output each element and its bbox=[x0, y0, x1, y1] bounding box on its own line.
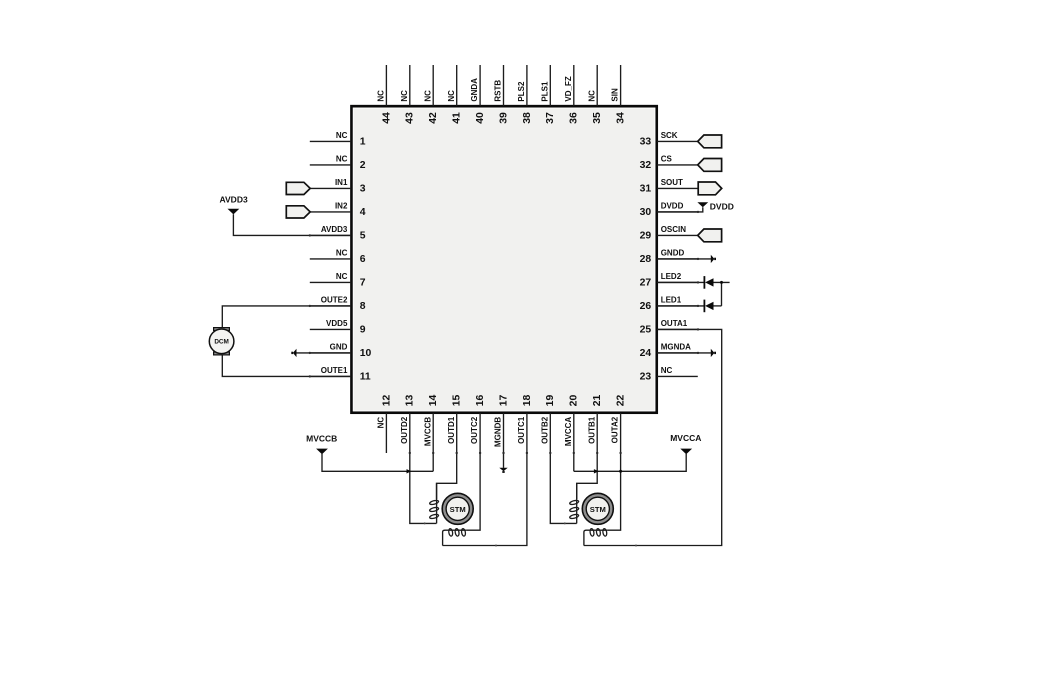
svg-text:20: 20 bbox=[569, 395, 580, 407]
connector OSCIN tag bbox=[698, 229, 722, 242]
svg-text:PLS1: PLS1 bbox=[540, 81, 549, 102]
pin 22 OUTA2 bottom wire bbox=[611, 395, 627, 453]
svg-text:OUTD1: OUTD1 bbox=[447, 416, 456, 444]
junction LED node bbox=[720, 281, 723, 284]
stepper motor STM A motor 2 bbox=[582, 493, 613, 524]
svg-text:5: 5 bbox=[360, 231, 366, 242]
pin 11 OUTE1 left wire bbox=[310, 366, 371, 383]
svg-text:NC: NC bbox=[336, 131, 348, 140]
svg-text:6: 6 bbox=[360, 254, 366, 265]
pin 42 NC top wire bbox=[423, 65, 439, 124]
pin 26 LED1 right wire bbox=[640, 296, 698, 313]
svg-text:DCM: DCM bbox=[214, 339, 229, 346]
pin 41 NC top wire bbox=[447, 65, 463, 124]
pin 14 MVCCB bottom wire bbox=[423, 395, 439, 453]
pin 35 NC top wire bbox=[587, 65, 603, 124]
pin 34 SIN top wire bbox=[611, 65, 627, 124]
svg-text:OUTE2: OUTE2 bbox=[321, 296, 348, 305]
inductor coil vertical STM A motor 2 bbox=[569, 483, 579, 523]
svg-text:CS: CS bbox=[661, 155, 673, 164]
svg-text:24: 24 bbox=[640, 348, 652, 359]
pin 16 OUTC2 bottom wire bbox=[470, 395, 486, 453]
pin 17 MGNDB bottom wire bbox=[494, 395, 510, 453]
pin 28 GNDD right wire bbox=[640, 249, 698, 266]
svg-text:19: 19 bbox=[545, 395, 556, 407]
wire pin 19 OUTB2 route bbox=[550, 453, 576, 523]
svg-text:2: 2 bbox=[360, 160, 366, 171]
svg-text:IN1: IN1 bbox=[335, 178, 348, 187]
pin 9 VDD5 left wire bbox=[310, 319, 366, 336]
svg-text:STM: STM bbox=[450, 505, 466, 514]
svg-text:STM: STM bbox=[590, 505, 606, 514]
wire pin 20 MVCCA stub down bbox=[573, 453, 575, 471]
diode LED1 bbox=[658, 300, 722, 313]
svg-text:34: 34 bbox=[616, 112, 627, 124]
wire AVDD3 to pin 5 bbox=[233, 214, 350, 235]
junction arrow on MVCCB rail at pin 13 bbox=[407, 469, 412, 473]
power DVDD symbol bbox=[697, 202, 733, 212]
inductor coil bottom STM A motor 2 bbox=[584, 528, 608, 545]
wire DVDD pin 30 bbox=[658, 207, 703, 212]
svg-text:4: 4 bbox=[360, 207, 366, 218]
svg-text:NC: NC bbox=[336, 249, 348, 258]
pin 43 NC top wire bbox=[400, 65, 416, 124]
power MVCCB symbol and rail bbox=[306, 434, 433, 472]
svg-text:NC: NC bbox=[400, 90, 409, 102]
svg-text:40: 40 bbox=[475, 112, 486, 124]
svg-text:SCK: SCK bbox=[661, 131, 678, 140]
pin 24 MGNDA right wire bbox=[640, 343, 698, 360]
pin 36 VD_FZ top wire bbox=[564, 65, 580, 124]
connector IN1 tag bbox=[286, 182, 310, 194]
junction arrow on MVCCA rail at pin 21 bbox=[594, 469, 599, 473]
svg-text:7: 7 bbox=[360, 278, 366, 289]
svg-text:25: 25 bbox=[640, 325, 652, 336]
svg-text:AVDD3: AVDD3 bbox=[220, 194, 248, 204]
svg-text:DVDD: DVDD bbox=[661, 202, 684, 211]
svg-text:GNDD: GNDD bbox=[661, 249, 685, 258]
svg-text:27: 27 bbox=[640, 278, 652, 289]
wire LED2 to LED1 vertical bbox=[721, 282, 723, 306]
svg-text:AVDD3: AVDD3 bbox=[321, 225, 348, 234]
inductor coil bottom STM B motor 1 bbox=[443, 528, 467, 545]
wire pin 25 OUTA1 long route bbox=[584, 329, 722, 545]
svg-text:32: 32 bbox=[640, 160, 652, 171]
svg-text:36: 36 bbox=[569, 112, 580, 124]
svg-text:38: 38 bbox=[522, 112, 533, 124]
svg-text:22: 22 bbox=[616, 395, 627, 407]
wire pin 11 OUTE1 to DCM motor bbox=[222, 355, 350, 377]
svg-text:41: 41 bbox=[452, 112, 463, 124]
svg-text:DVDD: DVDD bbox=[710, 202, 734, 212]
pin 21 OUTB1 bottom wire bbox=[587, 395, 603, 453]
svg-text:11: 11 bbox=[360, 372, 371, 383]
power MVCCA symbol and rail bbox=[574, 433, 702, 471]
wire pin 8 OUTE2 to DCM motor bbox=[222, 306, 350, 328]
svg-text:SOUT: SOUT bbox=[661, 178, 683, 187]
svg-text:MGNDA: MGNDA bbox=[661, 343, 691, 352]
connector SOUT tag bbox=[698, 182, 722, 195]
svg-text:14: 14 bbox=[428, 395, 439, 407]
svg-text:SIN: SIN bbox=[611, 88, 620, 102]
IC U1 44-pin QFP body bbox=[352, 106, 657, 413]
svg-text:NC: NC bbox=[336, 155, 348, 164]
svg-text:OUTC1: OUTC1 bbox=[517, 416, 526, 444]
svg-text:MVCCB: MVCCB bbox=[423, 417, 432, 447]
svg-text:17: 17 bbox=[498, 395, 509, 407]
svg-text:30: 30 bbox=[640, 207, 652, 218]
svg-text:OUTA2: OUTA2 bbox=[611, 416, 620, 443]
svg-text:NC: NC bbox=[377, 90, 386, 102]
svg-text:OUTD2: OUTD2 bbox=[400, 416, 409, 444]
pin 38 PLS2 top wire bbox=[517, 65, 533, 124]
svg-text:VDD5: VDD5 bbox=[326, 319, 348, 328]
svg-text:21: 21 bbox=[592, 395, 603, 407]
wire pin 14 MVCCB stub down bbox=[432, 453, 434, 471]
svg-text:43: 43 bbox=[405, 112, 416, 124]
wire pin 13 OUTD2 route bbox=[410, 453, 437, 523]
junction dot on MVCCA rail at pin 22 bbox=[619, 470, 622, 473]
svg-text:42: 42 bbox=[428, 112, 439, 124]
pin 39 RSTB top wire bbox=[494, 65, 510, 124]
svg-text:GNDA: GNDA bbox=[470, 78, 479, 102]
svg-text:39: 39 bbox=[498, 112, 509, 124]
svg-text:9: 9 bbox=[360, 325, 366, 336]
svg-text:12: 12 bbox=[381, 395, 392, 407]
stepper motor STM B motor 1 bbox=[442, 493, 473, 524]
svg-text:16: 16 bbox=[475, 395, 486, 407]
svg-text:10: 10 bbox=[360, 348, 372, 359]
svg-text:IN2: IN2 bbox=[335, 202, 348, 211]
svg-text:37: 37 bbox=[545, 112, 556, 124]
svg-text:MVCCA: MVCCA bbox=[564, 417, 573, 447]
pin 40 GNDA top wire bbox=[470, 65, 486, 124]
pin 20 MVCCA bottom wire bbox=[564, 395, 580, 453]
svg-text:23: 23 bbox=[640, 372, 652, 383]
pin 15 OUTD1 bottom wire bbox=[447, 395, 463, 453]
svg-text:NC: NC bbox=[661, 366, 673, 375]
pin 25 OUTA1 right wire bbox=[640, 319, 698, 336]
svg-text:1: 1 bbox=[360, 137, 366, 148]
svg-text:RSTB: RSTB bbox=[494, 80, 503, 102]
wire pin 16 OUTC2 route bbox=[467, 453, 481, 530]
junction dots misc bbox=[495, 545, 497, 547]
svg-text:18: 18 bbox=[522, 395, 533, 407]
pin 31 SOUT right wire bbox=[640, 178, 698, 195]
svg-text:8: 8 bbox=[360, 301, 366, 312]
svg-text:MVCCB: MVCCB bbox=[306, 434, 337, 444]
pin 2 NC left wire bbox=[310, 155, 366, 172]
pin 13 OUTD2 bottom wire bbox=[400, 395, 416, 453]
svg-text:VD_FZ: VD_FZ bbox=[564, 76, 573, 101]
svg-text:28: 28 bbox=[640, 254, 652, 265]
svg-text:35: 35 bbox=[592, 112, 603, 124]
ground GNDD arrow pin 28 bbox=[658, 255, 716, 263]
svg-text:31: 31 bbox=[640, 184, 652, 195]
pin 44 NC top wire bbox=[377, 65, 393, 124]
pin 6 NC left wire bbox=[310, 249, 366, 266]
pin 37 PLS1 top wire bbox=[540, 65, 556, 124]
pin 5 AVDD3 left wire bbox=[310, 225, 366, 242]
svg-text:OUTE1: OUTE1 bbox=[321, 366, 348, 375]
connector IN2 tag bbox=[286, 206, 310, 218]
svg-text:OSCIN: OSCIN bbox=[661, 225, 687, 234]
pin 18 OUTC1 bottom wire bbox=[517, 395, 533, 453]
svg-text:MGNDB: MGNDB bbox=[494, 417, 503, 447]
power AVDD3 symbol bbox=[220, 194, 248, 214]
connector CS tag bbox=[698, 159, 722, 172]
ground GND arrow pin 10 bbox=[291, 349, 350, 357]
junction dots bottom pin stubs bbox=[409, 452, 411, 454]
wire pin 21 OUTB1 route bbox=[577, 453, 598, 499]
pin 27 LED2 right wire bbox=[640, 272, 698, 289]
svg-text:44: 44 bbox=[381, 112, 392, 124]
ground MGNDB arrow pin 17 bbox=[499, 453, 507, 473]
svg-text:GND: GND bbox=[330, 343, 348, 352]
svg-text:OUTB1: OUTB1 bbox=[587, 416, 596, 444]
svg-text:OUTB2: OUTB2 bbox=[540, 416, 549, 444]
svg-text:OUTA1: OUTA1 bbox=[661, 319, 688, 328]
junction dots left routed pins bbox=[309, 234, 311, 236]
svg-text:NC: NC bbox=[587, 90, 596, 102]
pin 7 NC left wire bbox=[310, 272, 366, 289]
pin 8 OUTE2 left wire bbox=[310, 296, 366, 313]
svg-text:NC: NC bbox=[377, 417, 386, 429]
pin 3 IN1 left wire bbox=[310, 178, 366, 195]
svg-text:OUTC2: OUTC2 bbox=[470, 416, 479, 444]
pin 29 OSCIN right wire bbox=[640, 225, 698, 242]
svg-text:15: 15 bbox=[452, 395, 463, 407]
pin 19 OUTB2 bottom wire bbox=[540, 395, 556, 453]
pin 30 DVDD right wire bbox=[640, 202, 698, 219]
pin 32 CS right wire bbox=[640, 155, 698, 172]
motor DCM bbox=[209, 328, 234, 355]
pin 1 NC left wire bbox=[310, 131, 366, 148]
svg-text:LED2: LED2 bbox=[661, 272, 682, 281]
pin 23 NC right wire bbox=[640, 366, 698, 383]
connector SCK tag bbox=[698, 135, 722, 148]
pin 10 GND left wire bbox=[310, 343, 372, 360]
svg-text:LED1: LED1 bbox=[661, 296, 682, 305]
svg-text:13: 13 bbox=[405, 395, 416, 407]
pin 12 NC bottom wire bbox=[377, 395, 393, 453]
pin 4 IN2 left wire bbox=[310, 202, 366, 219]
svg-text:33: 33 bbox=[640, 137, 652, 148]
pin 33 SCK right wire bbox=[640, 131, 698, 148]
svg-text:29: 29 bbox=[640, 231, 652, 242]
wire pin 18 OUTC1 route bbox=[443, 453, 527, 546]
svg-text:MVCCA: MVCCA bbox=[670, 433, 701, 443]
inductor coil vertical STM B motor 1 bbox=[429, 483, 439, 523]
svg-text:PLS2: PLS2 bbox=[517, 81, 526, 102]
svg-text:NC: NC bbox=[447, 90, 456, 102]
svg-text:NC: NC bbox=[336, 272, 348, 281]
ground MGNDA arrow pin 24 bbox=[711, 349, 716, 357]
svg-text:NC: NC bbox=[423, 90, 432, 102]
junction dots right routed pins bbox=[697, 211, 699, 213]
wire pin 15 OUTD1 route bbox=[437, 453, 457, 499]
svg-text:3: 3 bbox=[360, 184, 366, 195]
svg-text:26: 26 bbox=[640, 301, 652, 312]
wire pin 22 OUTA2 route bbox=[608, 453, 621, 530]
diode LED2 bbox=[658, 276, 730, 289]
